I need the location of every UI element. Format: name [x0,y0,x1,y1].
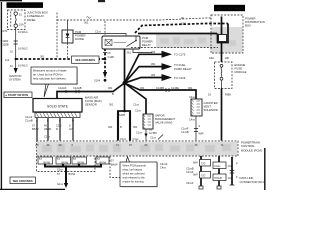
svg-text:C: C [163,76,166,80]
label: junction box fuse/relay panel [27,11,48,22]
svg-text:C1xxF: C1xxF [181,127,189,131]
svg-text:SEE GROUNDS: SEE GROUNDS [13,179,33,183]
svg-text:SOLID STATE: SOLID STATE [47,104,69,108]
MAF sensor (solid state box) [33,99,82,113]
svg-text:R: R [56,127,58,131]
ground G104 [57,182,68,188]
label: vapor management valve [155,114,175,125]
svg-text:MODULE (PCM): MODULE (PCM) [241,148,262,152]
watermark band top right [156,35,242,48]
engine fuse module (dashed) [215,62,233,89]
svg-text:BK/W: BK/W [44,161,51,165]
label: mass air flow (MAF) sensor [85,96,102,107]
canister vent wire to PCM [181,116,204,141]
svg-text:361: 361 [151,73,156,77]
MAF wire pin C [59,118,61,141]
bold wire engine fuse module to PCM pin [208,89,231,141]
label: PCM power diode [75,30,86,41]
connector labels C1AAF C1AAB on MAF feed [58,86,114,96]
wire relay pin 87a [133,49,152,53]
dashed wire relay to power box lower [131,47,218,49]
powertrain control module (PCM) dashed strip [37,141,239,156]
wire relay coil feed from diode [73,34,126,37]
wire diode to ground bus [67,43,69,59]
svg-text:C1xx: C1xx [95,30,102,34]
svg-text:P: P [236,162,238,166]
PCM power relay K1 [102,36,140,49]
svg-text:W/R: W/R [199,132,204,136]
dashed feed bus to power distribution box [57,18,212,20]
svg-text:C2xxF: C2xxF [186,170,194,174]
scan mark top edge [98,0,105,2]
svg-text:CONNECTOR (DLC): CONNECTOR (DLC) [240,180,266,184]
battery feed inside box [221,17,223,35]
wire from bus to PCM power diode [67,20,69,30]
svg-text:361: 361 [127,51,132,55]
svg-text:C1xx: C1xx [120,137,127,141]
svg-text:and released to the: and released to the [123,176,146,180]
bottom left connector labels [160,162,168,170]
splice star node S101 [123,81,127,85]
svg-text:TO C126: TO C126 [174,76,186,80]
svg-text:C4xxF: C4xxF [186,181,194,185]
DLC wire label boxes [193,160,232,181]
svg-text:361: 361 [151,62,156,66]
svg-text:BOX: BOX [245,24,251,28]
svg-text:VALVE (VMV): VALVE (VMV) [155,121,172,125]
svg-text:RELAY: RELAY [142,43,151,47]
label: data link connector [240,176,266,184]
svg-text:361: 361 [84,21,89,25]
svg-text:C138: C138 [108,55,115,59]
svg-text:C1xxB: C1xxB [25,119,33,123]
svg-text:PANEL: PANEL [27,18,36,22]
svg-text:C1xx: C1xx [133,137,140,141]
svg-text:C1AAF: C1AAF [58,86,67,90]
leader label C1xx above PCM [150,135,163,140]
border frame [0,1,265,190]
svg-text:MODULE: MODULE [235,70,247,74]
svg-text:10K: 10K [225,56,230,60]
svg-text:SEE GROUNDS: SEE GROUNDS [75,58,95,62]
MAF connector strip [25,113,80,123]
svg-text:10K: 10K [181,22,186,26]
note box: when PCM grounds relay [120,157,158,188]
svg-text:A6A: A6A [209,56,214,60]
svg-text:BK/W: BK/W [111,162,118,166]
vapor management valve (VMV) [135,109,153,130]
svg-text:361: 361 [140,86,145,90]
bold dashed bus relay to power distribution box [135,24,228,34]
DLC connector labels [186,167,194,186]
fuse F2.10 15A [14,12,24,27]
svg-text:C1xxB: C1xxB [181,130,189,134]
svg-text:GY/BK: GY/BK [149,131,157,135]
power distribution box (dashed) [211,15,243,53]
PCM ground pin row [38,157,109,165]
svg-text:16 R/LG: 16 R/LG [18,30,28,34]
svg-text:S185: S185 [119,113,126,117]
label: power distribution box [245,17,265,28]
svg-text:G1xx: G1xx [57,182,64,186]
svg-text:0K: 0K [108,51,111,55]
label: powertrain control module [241,141,262,153]
svg-text:C1xx: C1xx [133,103,140,107]
svg-text:C4xxF: C4xxF [160,162,168,166]
arrow B [151,62,192,71]
MAF wire pin A [36,118,38,141]
wire star to VMV [125,83,147,114]
svg-text:engine for burning.: engine for burning. [123,180,145,184]
svg-text:LB/BK: LB/BK [44,127,52,131]
svg-text:361: 361 [151,50,156,54]
ground bus bold [45,164,101,186]
svg-text:DIODE: DIODE [75,37,84,41]
svg-text:HOT IN START OR RUN: HOT IN START OR RUN [9,4,41,8]
wire star down to splice S185 [124,83,126,111]
wire to engine fuse module [221,43,223,63]
svg-text:361: 361 [108,125,113,129]
label box SEE GROUNDS (on bus) [72,56,100,63]
svg-text:PUMP RELAY: PUMP RELAY [174,67,192,71]
svg-text:help calculate fuel delivery.: help calculate fuel delivery. [33,77,67,81]
fuse holder box [219,35,227,42]
svg-text:GY: GY [69,127,73,131]
wire star to arrow A [125,54,163,83]
arrow A [151,50,186,58]
svg-text:141: 141 [228,164,233,168]
wire S104 drop (bold dashed with arrow) [94,49,114,83]
svg-text:361: 361 [109,103,114,107]
relay feed leg inside box (U shape) [218,24,229,43]
canister vent solenoid [189,95,202,116]
svg-text:9/W: 9/W [193,173,198,177]
svg-text:which are collected: which are collected [123,172,146,176]
svg-text:141: 141 [228,176,233,180]
svg-text:16 R/LG: 16 R/LG [18,47,28,51]
svg-text:361: 361 [133,125,138,129]
PCM top pin tick labels [120,137,139,141]
ground bus wire (bold dashed) to S104 [16,58,105,60]
MAF wire labels [32,124,73,139]
svg-text:361: 361 [188,86,193,90]
svg-text:T/O: T/O [201,161,205,165]
svg-text:C1xx: C1xx [136,131,143,135]
S185 right leg wire [129,111,131,141]
note box: measures amount of intake air [31,67,78,97]
svg-text:C146B: C146B [156,86,164,90]
svg-text:BK/W: BK/W [32,127,39,131]
svg-text:361: 361 [108,86,113,90]
svg-text:114: 114 [5,58,10,62]
C146 connector labels [140,86,193,92]
junction box right dashed boundary [104,21,106,35]
connector dashed boundary below PCM [37,156,96,172]
S185 left leg wire [117,111,119,141]
bold feed wire relay to battery [138,33,217,35]
svg-text:BK/W: BK/W [78,161,85,165]
svg-text:BK/W: BK/W [62,161,69,165]
svg-text:HOT AT ALL TIMES: HOT AT ALL TIMES [217,7,243,11]
svg-text:C1xx: C1xx [150,136,157,140]
data link connector wires [199,156,238,189]
svg-text:BK/W: BK/W [69,172,76,176]
svg-text:C1xx: C1xx [44,135,51,139]
svg-text:0K: 0K [181,16,184,20]
svg-text:T/O: T/O [201,173,205,177]
svg-text:relay, fuel vapors: relay, fuel vapors [123,168,143,172]
wire star to arrow C [125,78,163,84]
PCM power diode D1 [62,30,73,43]
wire star to MAF [57,83,125,99]
wire star to arrow B [125,67,163,83]
svg-text:C1xxF: C1xxF [25,115,33,119]
svg-text:S104: S104 [94,79,101,83]
label: ignition system [9,74,21,82]
svg-text:▸ START OR RUN: ▸ START OR RUN [5,93,28,97]
svg-text:S1xx: S1xx [57,168,63,172]
wire 16 R/LG from fuse to ignition system [16,27,28,68]
svg-text:PK/LB: PK/LB [215,176,223,180]
label: canister vent solenoid [204,101,218,112]
junction box dashed boundary [56,13,58,60]
svg-text:SOLENOID: SOLENOID [204,108,218,112]
VMV wire to PCM [136,128,157,141]
junction node on ignition wire [15,58,17,60]
bold wire relay output to splice star [124,49,126,83]
svg-text:C4xx: C4xx [160,166,167,170]
wire star to C146 bus [125,83,197,99]
svg-text:9/W: 9/W [193,161,198,165]
PCM pin numbers [36,143,224,147]
splice S185 bar [117,110,131,117]
svg-text:SENSOR: SENSOR [85,103,97,107]
svg-text:C146E: C146E [171,86,179,90]
MAF wire pin B [47,118,49,141]
label box START OR RUN [4,92,32,98]
svg-text:361: 361 [40,55,45,59]
svg-text:15A: 15A [19,23,24,27]
arrow C [151,73,186,81]
svg-text:R/BK: R/BK [225,93,231,97]
svg-text:C1xx: C1xx [135,109,142,113]
label box SEE GROUNDS bottom [10,177,36,184]
header label HOT AT ALL TIMES [214,5,245,11]
svg-text:SYSTEM: SYSTEM [9,78,21,82]
svg-text:16 R/LG: 16 R/LG [18,64,28,68]
svg-text:FA1x: FA1x [215,164,222,168]
watermark band inside PCM strip [37,142,238,156]
svg-text:When PCM grounds: When PCM grounds [123,164,147,168]
MAF wire pin D [72,118,74,141]
svg-text:B: B [120,125,122,129]
label: PCM power relay [142,36,153,47]
svg-text:C1AAB: C1AAB [73,86,82,90]
svg-text:TO C175: TO C175 [174,53,186,57]
arrow to ignition system [14,68,18,74]
svg-text:C1.5: C1.5 [56,124,62,128]
svg-text:C2xxB: C2xxB [186,167,194,171]
svg-text:B: B [112,92,114,96]
label: engine fuse module [235,63,247,74]
connector C202F / C202B ticks [1,39,18,68]
junction box fuse/relay panel (dashed box) [8,10,26,30]
header label HOT IN START OR RUN [7,2,44,8]
svg-text:C4xx: C4xx [189,118,196,122]
